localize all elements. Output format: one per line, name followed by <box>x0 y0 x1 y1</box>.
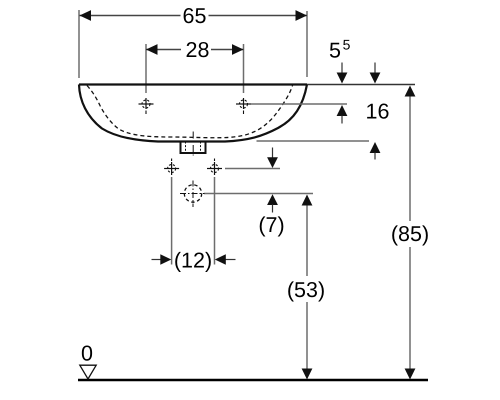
fixing hole left <box>164 159 179 176</box>
reference line: fixing hole level <box>225 168 280 170</box>
dimension (7): lower arrow <box>267 194 278 212</box>
svg-text:16: 16 <box>366 100 390 124</box>
dimension (53): upper arrow <box>302 195 313 206</box>
reference line: basin bottom level <box>257 140 370 142</box>
dimension 65: extension line left <box>78 10 80 78</box>
dimension 28: left arrow <box>146 44 158 55</box>
dimension (7): upper arrow <box>267 148 278 169</box>
svg-text:(53): (53) <box>287 278 325 302</box>
dimension (12): extension line right <box>214 177 216 265</box>
svg-text:5: 5 <box>343 36 351 52</box>
svg-text:(85): (85) <box>391 222 429 246</box>
fixing hole right <box>207 159 222 176</box>
washbasin top edge <box>79 83 307 85</box>
dimension 5.5: upper arrow <box>337 63 348 84</box>
dimension 65: right arrow <box>296 10 308 21</box>
washbasin outer outline <box>79 85 307 142</box>
dimension (85): upper arrow <box>405 86 416 97</box>
reference line: drain level <box>204 193 313 195</box>
dimension (12): left arrow <box>152 254 172 265</box>
dimension (85): lower arrow <box>405 369 416 380</box>
tap hole left <box>139 98 154 114</box>
datum triangle <box>80 365 96 379</box>
dimension 28: dimension line <box>146 49 244 51</box>
reference line: tap hole level <box>251 103 347 105</box>
dimension (53): lower arrow <box>302 369 313 380</box>
dimension 65: dimension line <box>80 15 308 17</box>
dimension 16: lower arrow <box>370 142 381 160</box>
dimension 28: extension line right <box>243 44 245 93</box>
svg-text:5: 5 <box>329 38 341 62</box>
svg-text:(7): (7) <box>258 213 284 237</box>
dimension (12): right arrow <box>215 254 236 265</box>
dimension 5.5: lower arrow <box>337 105 348 124</box>
dimension (53): line <box>306 205 308 370</box>
dimension (12): extension line left <box>171 177 173 265</box>
dimension (85): line <box>409 96 411 370</box>
dimension 65: left arrow <box>80 10 92 21</box>
drain outlet centerline <box>192 132 194 156</box>
svg-text:(12): (12) <box>174 249 212 273</box>
reference line: top edge extension <box>307 84 415 86</box>
dimension 28: right arrow <box>232 44 244 55</box>
drain outlet inner walls (dashed) <box>186 142 201 152</box>
dimension 65: extension line right <box>306 11 308 77</box>
drain pipe circle (dashed) <box>184 185 201 202</box>
dimension 28: extension line left <box>145 44 147 93</box>
washbasin inner rim (dashed) <box>87 86 293 138</box>
svg-text:28: 28 <box>186 38 210 62</box>
drain outlet box <box>181 141 206 153</box>
svg-text:65: 65 <box>183 4 207 28</box>
svg-text:0: 0 <box>81 342 93 366</box>
tap hole right <box>236 98 251 114</box>
floor line <box>78 379 428 382</box>
dimension 16: upper arrow <box>370 63 381 84</box>
drain pipe centerlines <box>180 181 205 208</box>
